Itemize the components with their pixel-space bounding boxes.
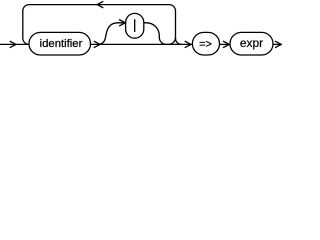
wire: expr to right edge [273,43,282,45]
expr oval [230,32,273,55]
arrowhead: before expr [223,41,229,48]
identifier oval [29,32,91,55]
arrowhead: into | circle [119,20,125,27]
separator path: after capsule, curve down, U along main line, up into loop vertical [144,23,176,45]
svg-text:identifier: identifier [40,38,83,50]
svg-text:=>: => [199,38,212,50]
wire: main line between identifier and => [91,43,193,45]
arrowhead: final exit [275,41,281,48]
capsule with | separator [126,13,144,38]
arrowhead: top line pointing left [97,1,103,8]
wire: main entry line [0,43,29,45]
wire: line => to expr [220,43,231,45]
arrowhead: entry [10,41,16,48]
| bar inside capsule [134,19,136,32]
=> oval [192,32,219,55]
arrowhead: before => [185,41,191,48]
arrowhead: after identifier [94,41,100,48]
svg-text:expr: expr [240,36,263,50]
outer loop: from main line up right side, along top (right-to-left), down left side [23,5,182,45]
separator path: S-curve up from main line after identifier [99,23,126,45]
